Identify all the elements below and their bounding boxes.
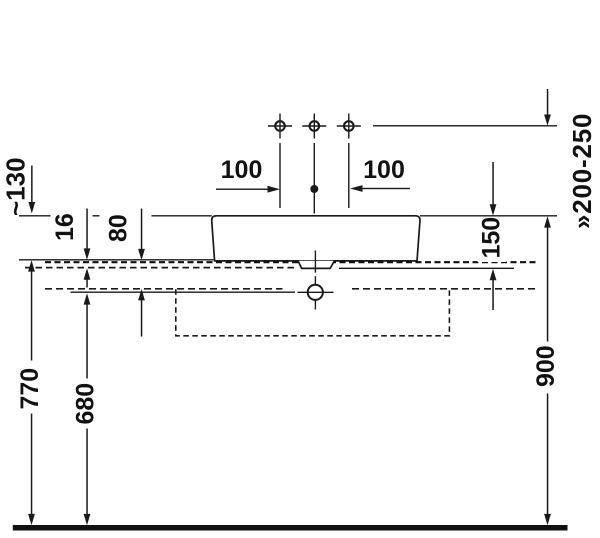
dimension 16 up arrow — [84, 268, 91, 287]
svg-text:680: 680 — [72, 383, 100, 425]
dimension 80 down arrow — [138, 209, 145, 261]
svg-text:100: 100 — [221, 156, 263, 184]
svg-text:100: 100 — [363, 156, 405, 184]
svg-text:»200-250: »200-250 — [567, 113, 597, 229]
dimension 16 down arrow — [84, 209, 91, 260]
center line below circle 3 — [348, 143, 350, 208]
rim reference line right — [420, 215, 557, 217]
hidden console bottom dashed line (16mm) — [25, 267, 297, 269]
svg-text:900: 900 — [532, 345, 560, 387]
faucet reference line — [373, 125, 557, 127]
drain boss — [298, 261, 334, 269]
svg-text:770: 770 — [16, 368, 44, 410]
washbasin body — [212, 216, 420, 261]
solid console top line left — [19, 259, 214, 261]
node dot on center line — [310, 185, 318, 193]
arrow ~130 — [28, 166, 35, 214]
floor line — [13, 525, 568, 531]
dimension line 100 left — [216, 186, 280, 193]
svg-text:~130: ~130 — [1, 157, 31, 216]
drain hole circle — [308, 285, 323, 300]
dimension 150 down arrow — [490, 162, 497, 216]
dashed furniture box — [176, 289, 450, 336]
faucet hole circle 2 — [302, 114, 326, 139]
rim reference line left — [19, 215, 51, 217]
drain crosshair horizontal — [298, 291, 334, 293]
150 reference line right — [339, 267, 514, 269]
hidden dashed line 80mm level left — [45, 288, 283, 290]
rim reference line left segment 3 — [152, 215, 212, 217]
680 reference line — [71, 291, 296, 293]
top-right down arrow of 200-250 — [544, 89, 551, 126]
faucet hole circle 1 — [268, 114, 292, 139]
dimension 80 up arrow — [138, 289, 145, 337]
center line below circle 1 — [279, 143, 281, 208]
faucet hole circle 3 — [337, 114, 361, 139]
center line below circle 2 — [313, 143, 315, 214]
svg-text:80: 80 — [105, 214, 133, 242]
label 150 — [478, 217, 507, 262]
svg-text:150: 150 — [478, 217, 506, 259]
dimension 150 up arrow — [490, 269, 497, 310]
drain center line lower — [314, 276, 316, 309]
dimension 770 line — [28, 260, 35, 525]
dimension line 100 right — [350, 185, 410, 192]
hidden dashed line 80mm level right — [352, 288, 539, 290]
hidden console top dashed line — [45, 261, 538, 263]
dimension 680 line — [84, 293, 91, 525]
svg-text:16: 16 — [51, 213, 79, 241]
rim reference line left segment 2 — [93, 215, 100, 217]
drain center line upper — [314, 251, 316, 273]
dimension 900 line — [544, 216, 551, 525]
